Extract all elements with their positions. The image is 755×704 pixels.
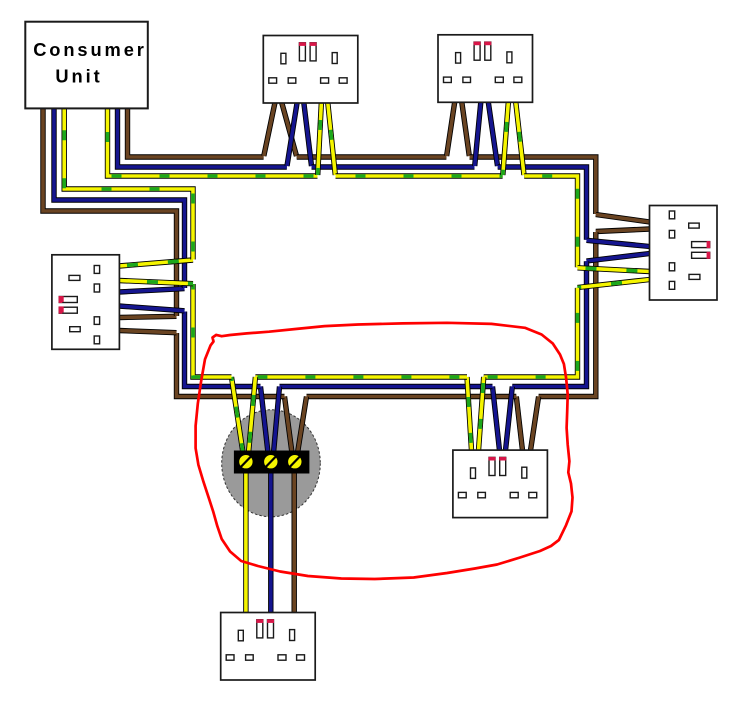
wire: earth leg S4 right (479, 377, 484, 451)
red highlight loop (freehand) (196, 323, 573, 579)
wire: brown ring S4 to junction box (307, 394, 517, 399)
socket S5 switch red marks (larger) (59, 296, 64, 312)
wire: earth ring S2 to S3 (524, 176, 577, 267)
wire: earth ring S4 to JB (255, 374, 467, 379)
wire: brown leg S1 left (264, 100, 276, 156)
wire: earth leg S4 left (467, 377, 472, 451)
wire: blue leg S2 left (475, 100, 481, 166)
wire: blue leg JB left (261, 387, 269, 454)
wire: earth leg S2 right (516, 100, 525, 175)
wire: brown leg JB right (298, 397, 307, 454)
wire: blue leg S3 upper (587, 240, 650, 246)
wire: brown ring JB to left socket S5 (177, 333, 285, 397)
terminal screw 2 (neutral) (264, 454, 279, 469)
wire: earth ring S3 to S4 (484, 288, 578, 377)
wire: earth leg JB right (249, 377, 256, 453)
wire: blue leg S2 right (488, 100, 498, 166)
wire: blue leg S1 left (287, 100, 298, 166)
wire: blue ring JB to S5 (185, 312, 261, 387)
wire: brown ring S5 back to CU (43, 106, 177, 316)
wire: earth leg S3 lower (578, 280, 650, 288)
wire: earth leg S1 left (318, 100, 322, 175)
wire: blue leg S1 right (304, 100, 312, 166)
wire: blue ring S5 back to CU (54, 106, 185, 288)
wire: blue leg S4 right (506, 387, 513, 451)
wire: brown ring S1 to S2 (297, 154, 447, 159)
wire: earth leg S5 upper (119, 260, 193, 266)
socket S3 (right side double socket, rotated) (650, 206, 718, 301)
wire: brown leg S2 left (447, 100, 455, 156)
wire: brown leg S3 lower (596, 229, 650, 232)
wire: brown ring S2 to right socket S3 (470, 157, 596, 214)
socket S4 (bottom right double socket) (453, 450, 548, 517)
wire: earth ring JB to S5 (193, 284, 232, 377)
socket S6 (bottom spur double socket) (221, 613, 316, 681)
wire: brown leg S5 lower (119, 331, 177, 333)
wire: earth spur JB to S6 (plain yellow) (243, 466, 248, 613)
junction box JB (grey round box) (222, 410, 321, 517)
wire: brown leg S3 upper (596, 215, 650, 223)
wire: brown leg S2 right (462, 100, 470, 156)
wire: live brown ring, CU to socket S1 (128, 106, 264, 157)
wire: earth ring S5 back to CU (64, 106, 193, 260)
socket S2 (top right double socket) (438, 35, 533, 103)
svg-text:Unit: Unit (55, 66, 102, 87)
wire: neutral blue ring, CU to socket S1 (118, 106, 287, 167)
wire: brown spur JB to socket S6 (292, 466, 297, 613)
wire: brown leg S1 right (281, 100, 297, 156)
wire: blue ring S1 to S2 (312, 164, 475, 169)
wire: blue leg JB right (274, 387, 280, 454)
wire: earth ring S1 to S2 (336, 173, 503, 178)
wire: brown leg JB left (285, 397, 293, 454)
wire: earth leg S5 lower (119, 281, 193, 284)
terminal screw 1 (earth) (239, 454, 254, 469)
wire: blue ring S4 to JB (280, 384, 493, 389)
socket S5 (left side double socket, rotated) (52, 255, 120, 350)
wire: blue spur JB to S6 (268, 466, 273, 613)
wire: brown leg S4 right (531, 397, 539, 451)
wire: earth leg S1 right (328, 100, 336, 175)
wire: earth leg S2 left (503, 100, 509, 175)
socket S1 (top left double socket) (263, 36, 358, 104)
wire: blue ring S2 to S3 (498, 167, 587, 240)
wire: earth leg S3 upper (578, 268, 650, 272)
svg-text:Consumer: Consumer (33, 39, 147, 60)
wire: blue ring S3 to S4 (512, 261, 586, 386)
wire: earth ring, CU to socket S1 (108, 106, 318, 176)
wire: brown leg S4 left (516, 397, 522, 451)
wire: brown ring S3 to socket S4 (539, 232, 596, 397)
consumer unit (25, 22, 148, 109)
junction box terminal strip (234, 451, 310, 474)
wire: blue leg S3 lower (587, 254, 650, 262)
terminal screw 3 (live) (288, 454, 303, 469)
wire: blue leg S5 lower (119, 306, 185, 311)
wire: blue leg S5 upper (119, 289, 185, 292)
wire: blue leg S4 left (493, 387, 500, 451)
wire: brown leg S5 upper (119, 316, 177, 317)
wire: earth leg JB left (232, 377, 244, 453)
